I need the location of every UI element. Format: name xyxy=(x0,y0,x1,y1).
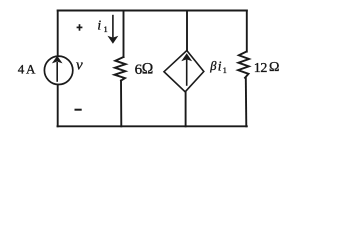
svg-text:v: v xyxy=(76,58,83,74)
svg-text:1: 1 xyxy=(104,25,108,34)
svg-text:1: 1 xyxy=(223,66,227,75)
svg-text:Ω: Ω xyxy=(142,60,154,77)
svg-text:i: i xyxy=(97,18,101,33)
svg-text:4 A: 4 A xyxy=(18,61,36,76)
svg-text:β: β xyxy=(209,59,217,73)
svg-text:Ω: Ω xyxy=(269,60,279,75)
svg-text:12: 12 xyxy=(254,61,268,76)
svg-text:i: i xyxy=(218,58,222,73)
